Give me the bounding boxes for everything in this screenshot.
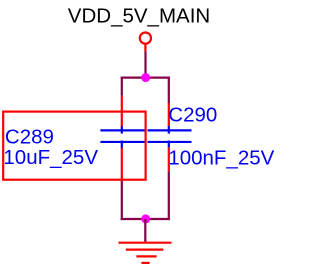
power symbol circle	[140, 33, 151, 44]
svg-text:C290: C290	[168, 103, 217, 126]
svg-text:VDD_5V_MAIN: VDD_5V_MAIN	[68, 4, 210, 27]
wire right branch selected segment above C290	[168, 103, 170, 126]
wire right branch selected segment below C290	[168, 147, 170, 171]
wire top horizontal	[121, 76, 170, 78]
svg-text:100nF_25V: 100nF_25V	[168, 147, 274, 170]
wire left branch upper	[121, 77, 123, 96]
capacitor C289	[100, 126, 144, 147]
wire bottom horizontal	[121, 218, 170, 220]
ground stem wire	[144, 219, 146, 243]
ground symbol	[119, 243, 172, 263]
wire right branch upper	[168, 77, 170, 104]
junction bottom	[141, 214, 150, 223]
wire left branch selected segment below C289	[121, 148, 123, 180]
svg-text:10uF_25V: 10uF_25V	[3, 146, 98, 169]
wire right branch lower	[168, 172, 170, 221]
junction top	[141, 73, 150, 82]
wire left branch selected segment above C289	[121, 96, 123, 127]
power symbol pin stub	[144, 44, 146, 52]
capacitor C290	[148, 126, 192, 147]
wire left branch lower	[121, 180, 123, 221]
selection box around C289	[3, 112, 145, 180]
wire from power pin to top junction	[144, 52, 146, 79]
